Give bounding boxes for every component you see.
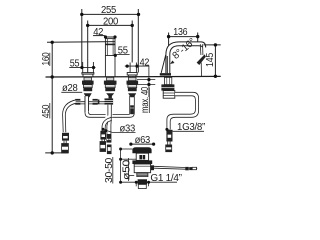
rod joint blocks — [185, 167, 189, 170]
pipe B from left handle to right elbow — [85, 96, 134, 117]
8-16 degree annotation — [170, 36, 198, 64]
svg-text:30-50: 30-50 — [104, 157, 115, 183]
pipe A collar — [98, 100, 100, 105]
label leaders — [61, 55, 204, 133]
right handle tube — [130, 96, 135, 114]
svg-text:1G3/8”: 1G3/8” — [177, 122, 205, 133]
side aerator foot — [160, 73, 171, 76]
side view spout — [161, 42, 206, 73]
right handle lower dark block — [130, 105, 134, 114]
55 right leader — [115, 54, 117, 57]
side lever thin position — [200, 44, 203, 76]
hose1 crimp left of handle — [73, 99, 80, 105]
dimension 200 line — [88, 24, 133, 26]
left handle valve tube over pipeA — [85, 96, 89, 112]
dimension 200 ext left — [87, 21, 89, 73]
dim 136 line — [169, 33, 198, 47]
left handle head — [69, 62, 95, 77]
right handle head — [125, 63, 149, 78]
hose 2 nipple — [100, 142, 106, 152]
svg-text:255: 255 — [101, 5, 117, 16]
svg-text:ø28: ø28 — [62, 83, 78, 94]
svg-text:55: 55 — [70, 59, 80, 70]
svg-text:160: 160 — [41, 52, 52, 66]
drain horizontal rod — [154, 166, 185, 169]
dimension 450 vertical line — [51, 77, 53, 153]
dimension 255 ext right — [137, 9, 139, 73]
pipe A nut stripes — [75, 101, 98, 103]
pipe A horizontal — [80, 102, 104, 104]
rod tip — [192, 167, 196, 169]
drain flange band — [132, 160, 152, 164]
svg-text:G1 1/4”: G1 1/4” — [150, 173, 181, 184]
drain rod curve — [106, 105, 111, 154]
spout joint line 1 — [105, 43, 115, 45]
side body box second line — [163, 95, 175, 97]
ref line 450 bottom — [45, 152, 68, 154]
side hose nipple — [166, 145, 172, 152]
pipe A nut — [93, 99, 98, 105]
left handle underdeck stack — [82, 77, 94, 97]
dim G1 1/4 line — [121, 182, 177, 186]
dimension 255 line — [82, 13, 139, 15]
drain tail dark band — [138, 179, 147, 184]
svg-text:200: 200 — [103, 16, 119, 27]
ref line 160 top — [47, 41, 115, 44]
hose 1 — [63, 100, 76, 132]
svg-text:ø33: ø33 — [120, 124, 136, 135]
dimension 42 front line — [93, 35, 105, 37]
dimension 160 vertical line — [51, 42, 53, 77]
dimension 255 ext left — [81, 9, 83, 68]
side hose loop — [167, 92, 199, 129]
stack inner lines — [83, 79, 136, 86]
G3/8 underline + leader — [173, 130, 204, 132]
svg-text:145: 145 — [205, 52, 216, 67]
hose 2 from pipe B down — [102, 117, 112, 131]
o33 underline + leader — [113, 132, 136, 134]
spout right edge lower — [114, 61, 116, 77]
drain tail tube — [138, 184, 146, 188]
label underlines 160/450/145 — [49, 53, 51, 66]
dimension dots — [51, 13, 218, 184]
svg-text:42: 42 — [93, 27, 104, 38]
dim max40 lines — [137, 66, 155, 114]
dim 145 line — [204, 45, 221, 76]
svg-text:ø63: ø63 — [135, 135, 151, 146]
spout underdeck stack — [104, 77, 117, 98]
svg-text:450: 450 — [41, 104, 52, 118]
drain body — [134, 164, 150, 173]
right handle underdeck stack — [127, 77, 139, 97]
drain tail threads — [137, 173, 148, 177]
svg-text:max. 40: max. 40 — [140, 86, 151, 113]
drain plug dome (filled) — [132, 147, 151, 153]
drain neck + overflow holes — [136, 153, 148, 160]
dim 30-50 — [113, 148, 137, 184]
spout column front — [105, 38, 115, 78]
svg-text:55: 55 — [118, 45, 129, 56]
side hose crimp — [166, 130, 172, 142]
side lever dark — [197, 54, 206, 65]
drain rod boss — [151, 165, 154, 170]
spout joint line 2 — [105, 55, 115, 57]
dimension 200 ext right — [131, 21, 133, 63]
spout shank tube + nut — [105, 98, 114, 117]
hose 2 crimp — [100, 131, 106, 140]
hose 1 crimp — [62, 133, 69, 141]
o50 leader tick — [129, 175, 135, 177]
svg-text:ø50: ø50 — [121, 159, 132, 180]
drain: dim o63 — [131, 143, 154, 145]
hose 1 nipple — [62, 144, 69, 153]
o28 underline — [61, 91, 82, 93]
side underdeck shank — [161, 77, 174, 98]
svg-text:42: 42 — [140, 57, 150, 68]
svg-text:136: 136 — [173, 27, 188, 38]
